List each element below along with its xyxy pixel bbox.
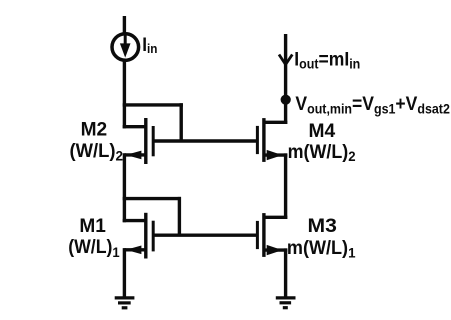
svg-text:M4: M4 — [309, 121, 336, 142]
transistor M2 channel bar — [144, 118, 147, 164]
svg-text:m(W/L)2: m(W/L)2 — [288, 142, 356, 164]
wire: I_out feed down to node — [284, 34, 287, 101]
wire: M1 gate-drain tie, horizontal top — [123, 197, 181, 200]
wire: M1 source down to ground — [123, 248, 126, 298]
wire: M4 source down to M3 drain — [284, 153, 287, 219]
wire: gate line M2 to M4 — [153, 139, 257, 142]
svg-text:M1: M1 — [79, 216, 106, 237]
transistor M3 gate bar — [256, 221, 259, 249]
arrowhead of I_out current direction — [279, 55, 286, 65]
ground under M1 — [115, 296, 135, 299]
transistor M2 gate bar — [152, 126, 155, 156]
svg-text:M2: M2 — [81, 120, 108, 141]
svg-text:(W/L)2: (W/L)2 — [70, 141, 124, 164]
transistor M1 gate bar — [152, 221, 155, 252]
wire: M3 source down to ground — [284, 248, 287, 298]
transistor M4 gate bar — [256, 126, 259, 154]
svg-text:m(W/L)1: m(W/L)1 — [287, 238, 356, 261]
wire: M3 drain lead — [264, 216, 287, 219]
wire: M2 drain lead — [123, 125, 146, 128]
wire: M2 gate-drain tie, horizontal top — [123, 103, 183, 106]
wire: M2 source lead — [124, 153, 145, 156]
svg-text:(W/L)1: (W/L)1 — [68, 237, 120, 260]
wire: top feed to current source — [123, 16, 126, 34]
node dot V_out,min — [281, 95, 291, 105]
transistor M3 channel bar — [262, 213, 265, 257]
wire: M4 source lead — [264, 153, 287, 156]
current source arrow I_in — [124, 35, 127, 49]
wire: current source to M2 drain node — [123, 61, 126, 129]
arrow: M2 source (points left) — [126, 151, 141, 160]
current source I_in — [112, 34, 139, 61]
wire: M3 source lead — [264, 248, 287, 251]
transistor M4 channel bar — [262, 118, 265, 162]
wire: gate line M1 to M3 — [153, 233, 257, 236]
wire: node down to M4 drain — [284, 100, 287, 124]
wire: M2 gate-drain tie, vertical drop — [179, 103, 182, 141]
arrow: M1 source (points left) — [126, 246, 141, 255]
wire: M1 gate-drain tie, vertical drop — [178, 197, 181, 235]
wire: M1 drain lead — [123, 219, 146, 222]
arrow: M4 source (points right) — [267, 150, 283, 160]
svg-text:M3: M3 — [308, 216, 337, 237]
wire: M1 source lead — [124, 248, 145, 251]
arrow: M3 source (points right) — [267, 245, 283, 255]
transistor M1 channel bar — [144, 213, 147, 259]
wire: M2 source down to M1 drain node — [123, 153, 126, 222]
wire: M4 drain lead — [264, 121, 287, 124]
ground under M3 — [276, 296, 296, 299]
